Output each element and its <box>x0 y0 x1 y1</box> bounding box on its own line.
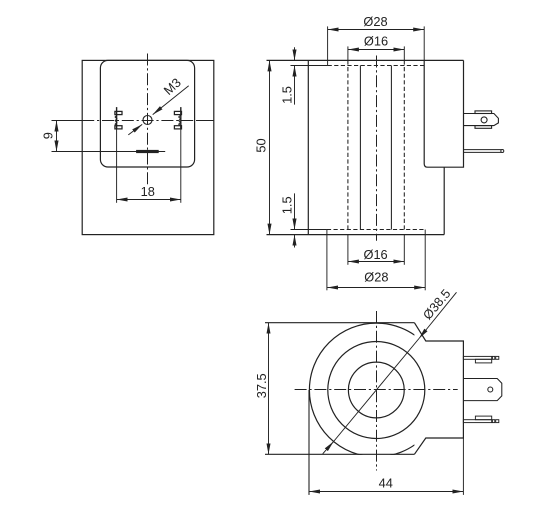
svg-text:18: 18 <box>141 184 155 199</box>
svg-text:9: 9 <box>40 132 55 139</box>
svg-text:50: 50 <box>253 138 268 152</box>
svg-text:44: 44 <box>379 475 393 490</box>
svg-text:37.5: 37.5 <box>254 373 269 398</box>
svg-text:Ø28: Ø28 <box>364 269 388 284</box>
svg-text:1.5: 1.5 <box>279 196 294 214</box>
svg-text:1.5: 1.5 <box>279 86 294 104</box>
svg-text:M3: M3 <box>161 75 184 98</box>
svg-text:Ø28: Ø28 <box>363 14 387 29</box>
svg-text:Ø16: Ø16 <box>363 247 387 262</box>
svg-text:Ø16: Ø16 <box>364 34 388 49</box>
